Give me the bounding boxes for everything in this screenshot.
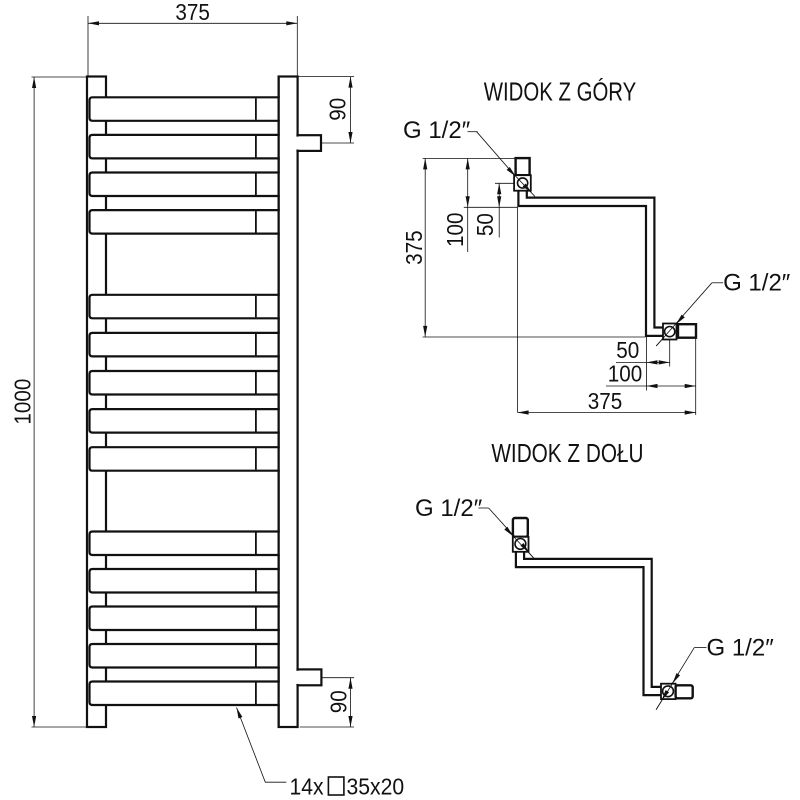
svg-text:WIDOK Z GÓRY: WIDOK Z GÓRY	[484, 77, 637, 106]
svg-text:50: 50	[472, 213, 499, 236]
svg-text:375: 375	[588, 388, 622, 415]
svg-text:G 1/2″: G 1/2″	[415, 495, 483, 522]
svg-text:375: 375	[401, 230, 428, 264]
svg-text:100: 100	[608, 360, 642, 387]
svg-text:90: 90	[324, 98, 351, 121]
svg-text:G 1/2″: G 1/2″	[723, 269, 791, 296]
svg-text:G 1/2″: G 1/2″	[403, 117, 471, 144]
svg-text:100: 100	[442, 213, 469, 247]
svg-text:14x: 14x	[290, 773, 324, 799]
svg-text:375: 375	[175, 0, 209, 25]
svg-text:1000: 1000	[9, 379, 36, 425]
svg-text:WIDOK Z DOŁU: WIDOK Z DOŁU	[491, 439, 643, 468]
svg-text:90: 90	[325, 690, 352, 713]
svg-text:35x20: 35x20	[347, 773, 405, 799]
svg-text:G 1/2″: G 1/2″	[707, 635, 775, 662]
